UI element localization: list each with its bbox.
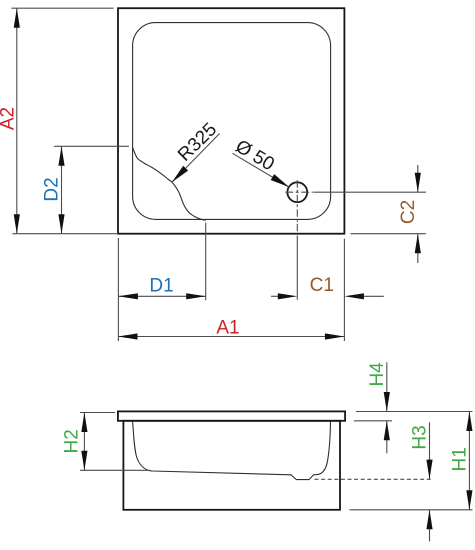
arrow H1 top	[466, 412, 472, 432]
arrowhead R325	[172, 166, 188, 182]
extension line flange top	[356, 411, 473, 413]
arrow H3 upper	[426, 460, 432, 480]
svg-text:C2: C2	[398, 200, 419, 224]
side view basin interior	[133, 422, 331, 480]
drain outlet dashed line	[315, 478, 434, 480]
arrow A1 left	[118, 333, 138, 339]
dimension H3 upper tail	[429, 422, 431, 479]
drain hole	[287, 182, 307, 202]
leader line R325	[172, 134, 220, 183]
dimension C2 line lower tail	[417, 234, 419, 263]
arrow H2 top	[81, 413, 87, 433]
svg-text:H4: H4	[367, 362, 388, 387]
arrow A1 right	[325, 333, 345, 339]
arrow D2 top	[58, 146, 64, 166]
extension line bottom right	[351, 233, 427, 235]
side view body	[123, 421, 340, 510]
svg-text:H1: H1	[449, 447, 470, 471]
arrow A2 bottom	[14, 214, 20, 234]
arrow H1 bottom	[466, 490, 472, 510]
dimension H3 lower tail	[429, 510, 431, 542]
extension line drain to C2	[314, 191, 426, 193]
extension line body bottom	[350, 509, 473, 511]
outer tray edge (top view)	[118, 8, 344, 234]
extension line top (A2)	[11, 7, 113, 9]
extension line D2	[54, 145, 129, 147]
extension line A1 left	[117, 238, 119, 341]
arrow H2 bottom	[81, 451, 87, 471]
extension line bottom left	[13, 233, 119, 235]
dimension H1 line	[468, 412, 470, 510]
side view flange	[118, 411, 345, 420]
svg-text:A1: A1	[216, 318, 239, 339]
arrow C1 right	[344, 293, 364, 299]
arrow D2 bottom	[58, 214, 64, 234]
dimension H4 lower tail	[386, 421, 388, 454]
drain centerline horizontal	[285, 191, 313, 193]
inner tray rim (rounded)	[133, 23, 331, 220]
svg-text:D2: D2	[42, 177, 63, 201]
arrow C2 lower	[415, 234, 421, 254]
arrow C1 left	[278, 293, 298, 299]
leader line D50	[233, 153, 290, 187]
arrow C2 upper	[415, 173, 421, 193]
svg-text:D1: D1	[149, 275, 173, 296]
arrow D1 left	[118, 293, 137, 299]
arrowhead D50	[271, 174, 290, 187]
extension line D1 (curve end)	[205, 223, 207, 301]
svg-text:H3: H3	[410, 425, 431, 449]
dimension C1 right tail	[363, 295, 384, 297]
dimension D1 line	[118, 295, 205, 297]
dimension A1 line	[118, 336, 344, 338]
dimension C2 line upper tail	[417, 165, 419, 192]
dimension D2 line	[61, 146, 63, 233]
dimension A2 line	[16, 8, 18, 234]
svg-text:C1: C1	[310, 275, 334, 296]
extension line H2 bottom	[80, 469, 149, 471]
dimension C1 left tail	[271, 295, 279, 297]
dimension H2 line	[83, 413, 85, 471]
arrow H4 lower	[384, 421, 390, 441]
arrow D1 right	[186, 293, 206, 299]
extension line flange bottom	[354, 420, 392, 422]
dimension H4 upper tail	[386, 362, 388, 411]
extension line A1 right	[343, 239, 345, 341]
arrow H4 upper	[384, 392, 390, 412]
floor slope S-curve R325	[133, 148, 206, 221]
svg-text:H2: H2	[61, 429, 82, 453]
drain centerline vertical	[296, 180, 298, 232]
extension line H2 top	[80, 412, 115, 414]
arrow H3 lower	[426, 510, 432, 530]
svg-text:A2: A2	[0, 107, 19, 130]
arrow A2 top	[14, 8, 20, 28]
extension line C1 (drain center)	[296, 236, 298, 300]
